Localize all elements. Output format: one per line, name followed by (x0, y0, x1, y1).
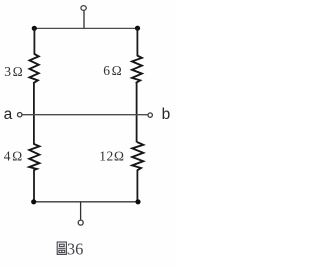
wire: top horizontal (34, 27, 137, 29)
wire: bottom horizontal (34, 201, 138, 203)
svg-text:3Ω: 3Ω (4, 64, 24, 79)
node: top-left junction (32, 26, 37, 31)
svg-text:36: 36 (67, 240, 84, 259)
terminal b circle (148, 113, 152, 117)
wire: left branch upper lead (33, 28, 35, 54)
wire: right branch middle lead (136, 82, 138, 142)
resistor R1 3ohm zigzag (30, 54, 39, 83)
wire: top stub (83, 11, 85, 29)
node: top-right junction (135, 26, 140, 31)
wire: right branch lower lead (136, 170, 138, 202)
resistor R3 4ohm zigzag (29, 144, 39, 170)
figure caption: hand-drawn CJK glyph for "figure" (57, 242, 66, 254)
terminal a circle (18, 113, 22, 117)
resistor R2 6ohm zigzag (132, 56, 142, 83)
svg-text:6Ω: 6Ω (103, 63, 123, 78)
svg-text:12Ω: 12Ω (99, 149, 124, 164)
node: bottom-right junction (135, 199, 140, 204)
wire: right branch upper lead (136, 28, 138, 56)
wire: left branch lower lead (33, 170, 35, 202)
wire: left branch middle lead (33, 83, 35, 145)
node: bottom-left junction (31, 199, 36, 204)
wire: bottom stub (80, 202, 82, 220)
svg-text:4Ω: 4Ω (4, 149, 24, 164)
svg-text:a: a (4, 106, 13, 123)
resistor R4 12ohm zigzag (132, 142, 143, 170)
bottom terminal (78, 220, 83, 225)
wire: middle horizontal a-b (22, 114, 147, 116)
top terminal (81, 6, 86, 11)
svg-text:b: b (162, 106, 171, 123)
